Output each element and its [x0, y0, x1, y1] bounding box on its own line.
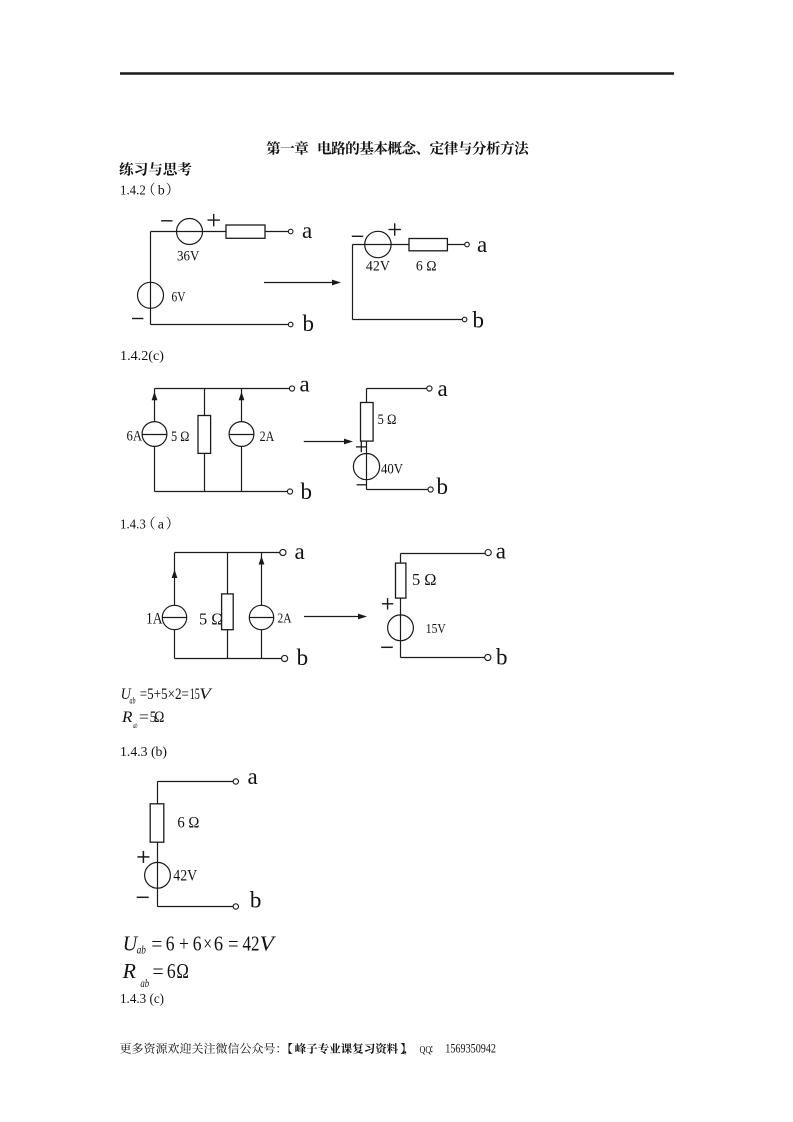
svg-text:b: b — [297, 645, 309, 670]
svg-text:Ω: Ω — [176, 959, 189, 983]
svg-text:a: a — [300, 372, 310, 397]
svg-text:V: V — [260, 932, 277, 956]
svg-text:6V: 6V — [172, 290, 186, 306]
svg-text:=: = — [139, 709, 149, 726]
svg-text:Ω: Ω — [154, 709, 164, 726]
svg-text:6 Ω: 6 Ω — [416, 259, 437, 275]
svg-text:=5+5×2=: =5+5×2= — [140, 686, 189, 703]
svg-text:a: a — [248, 764, 258, 789]
svg-text:1.4.3 (b): 1.4.3 (b) — [120, 745, 167, 760]
svg-text:5 Ω: 5 Ω — [412, 570, 437, 589]
svg-text:R: R — [122, 959, 137, 983]
svg-text:QQ: QQ — [420, 1044, 432, 1056]
svg-text:b: b — [473, 308, 485, 333]
svg-text:×: × — [203, 932, 212, 956]
svg-text:1.4.2: 1.4.2 — [120, 184, 146, 199]
svg-text:=: = — [153, 959, 164, 983]
svg-text:1.4.2(c): 1.4.2(c) — [120, 349, 164, 364]
svg-text:15V: 15V — [426, 621, 446, 636]
svg-text:2A: 2A — [260, 429, 275, 445]
svg-text:b: b — [301, 479, 313, 504]
svg-text:2A: 2A — [278, 611, 292, 626]
svg-text:6 Ω: 6 Ω — [177, 815, 199, 832]
svg-text:42V: 42V — [173, 867, 198, 884]
svg-text:6A: 6A — [127, 429, 143, 445]
svg-text:5 Ω: 5 Ω — [199, 609, 224, 628]
svg-text:b: b — [496, 645, 508, 670]
svg-text:b: b — [158, 184, 165, 199]
svg-text:a: a — [295, 539, 305, 564]
svg-text:a: a — [496, 539, 506, 564]
svg-text:b: b — [250, 888, 262, 913]
svg-text:R: R — [121, 709, 133, 726]
svg-text:=: = — [151, 932, 162, 956]
svg-text:a: a — [158, 518, 165, 533]
svg-text:ab: ab — [133, 721, 138, 730]
svg-text:+: + — [179, 932, 189, 956]
svg-text:ab: ab — [137, 943, 146, 957]
svg-text:b: b — [303, 311, 315, 336]
svg-text:6: 6 — [214, 932, 223, 956]
svg-text:V: V — [199, 686, 212, 703]
svg-text:ab: ab — [140, 976, 149, 990]
svg-text:1569350942: 1569350942 — [445, 1041, 496, 1055]
svg-text:42V: 42V — [366, 259, 390, 275]
svg-text:a: a — [438, 376, 448, 401]
svg-text:6: 6 — [167, 959, 176, 983]
svg-text:6: 6 — [193, 932, 202, 956]
svg-text:36V: 36V — [177, 249, 200, 265]
svg-text:a: a — [302, 218, 312, 243]
svg-text:5 Ω: 5 Ω — [378, 412, 397, 428]
svg-text:5 Ω: 5 Ω — [171, 429, 190, 445]
svg-text:1.4.3 (c): 1.4.3 (c) — [120, 992, 164, 1007]
svg-text:1A: 1A — [146, 611, 163, 628]
svg-text:40V: 40V — [381, 461, 403, 477]
svg-text:b: b — [437, 474, 449, 499]
svg-text:=: = — [228, 932, 239, 956]
svg-text:1.4.3: 1.4.3 — [120, 518, 146, 533]
svg-text:ab: ab — [130, 695, 136, 705]
svg-text:a: a — [477, 232, 487, 257]
svg-text:42: 42 — [243, 932, 260, 956]
svg-text:6: 6 — [166, 932, 175, 956]
